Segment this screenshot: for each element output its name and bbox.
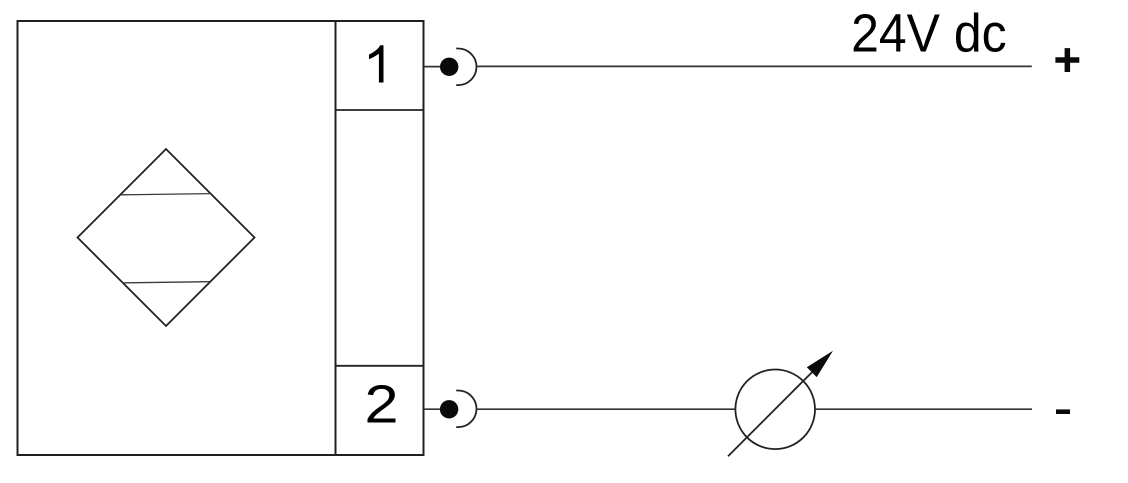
pin 1 socket arc bbox=[456, 49, 476, 86]
pin 2 plug contact dot bbox=[440, 400, 458, 418]
terminal strip bbox=[336, 21, 424, 455]
terminal 1 divider bbox=[336, 109, 424, 111]
svg-text:24V dc: 24V dc bbox=[851, 3, 1006, 63]
wire arc to meter bbox=[477, 408, 736, 410]
plus terminal bbox=[1055, 48, 1079, 72]
terminal 2 divider bbox=[336, 365, 424, 367]
diamond lower chord bbox=[122, 282, 209, 283]
meter arrow head bbox=[807, 351, 833, 377]
wire meter to minus bbox=[815, 408, 1032, 410]
pin 1 plug contact dot bbox=[440, 58, 458, 76]
pin 1 label bbox=[369, 45, 384, 82]
meter body circle bbox=[735, 370, 815, 450]
meter arrow shaft bbox=[728, 370, 814, 456]
sensor symbol diamond bbox=[78, 149, 255, 326]
minus terminal bbox=[1056, 409, 1070, 414]
diamond upper chord bbox=[121, 194, 211, 195]
wire pin 2 stub bbox=[424, 408, 442, 410]
svg-text:2: 2 bbox=[364, 375, 398, 434]
pin 2 socket arc bbox=[456, 391, 476, 428]
sensor body box bbox=[18, 21, 336, 455]
wire pin 1 stub bbox=[424, 66, 442, 68]
wire to +24V bbox=[477, 65, 1032, 67]
